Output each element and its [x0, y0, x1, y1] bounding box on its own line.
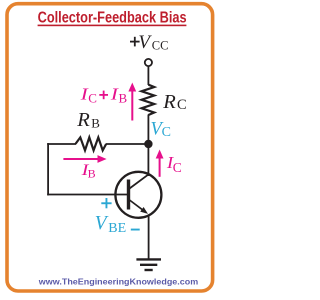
label + (cyan, base)	[101, 198, 111, 208]
svg-text:R: R	[76, 109, 90, 131]
circle body	[115, 172, 161, 218]
svg-text:B: B	[119, 90, 128, 105]
transistor Q1	[115, 172, 161, 218]
svg-text:B: B	[88, 166, 96, 180]
wire: bottom horizontal to base	[47, 194, 128, 196]
svg-text:C: C	[173, 160, 182, 175]
wire: left vertical	[47, 143, 49, 195]
svg-text:BE: BE	[108, 221, 126, 236]
svg-text:R: R	[162, 91, 176, 113]
svg-text:www.TheEngineeringKnowledge.co: www.TheEngineeringKnowledge.com	[38, 276, 199, 286]
wire: RC to node	[147, 115, 149, 146]
node dot (collector junction)	[144, 140, 152, 148]
wire: node to RB (top feedback wire, right part)	[106, 143, 148, 145]
arrow IC+IB (magenta, up, beside RC)	[128, 83, 136, 121]
svg-text:C: C	[162, 125, 171, 140]
arrow IC (magenta, up, at collector)	[156, 150, 164, 177]
svg-text:CC: CC	[152, 39, 169, 53]
wire: terminal to RC	[147, 66, 149, 85]
collector diagonal	[130, 174, 149, 188]
wire: node to collector	[147, 144, 149, 176]
svg-text:Collector-Feedback Bias: Collector-Feedback Bias	[38, 9, 187, 26]
label - (cyan, emitter)	[131, 229, 140, 231]
VCC terminal circle	[145, 59, 152, 66]
svg-text:C: C	[177, 97, 187, 113]
emitter diagonal with arrow	[130, 200, 147, 212]
base bar	[127, 180, 130, 210]
label IC + IB (magenta)	[79, 85, 127, 106]
title underline	[38, 25, 187, 27]
label +VCC	[130, 32, 168, 53]
resistor RB (zigzag)	[76, 137, 107, 150]
arrow IB (magenta, right)	[63, 155, 106, 163]
wire: RB to left corner	[47, 143, 76, 145]
ground	[136, 259, 161, 270]
svg-text:C: C	[88, 90, 97, 105]
border frame	[7, 4, 213, 291]
wire: emitter down to ground	[148, 215, 150, 260]
resistor RC (zigzag)	[142, 85, 155, 115]
svg-text:V: V	[95, 213, 109, 234]
svg-text:B: B	[91, 115, 100, 130]
